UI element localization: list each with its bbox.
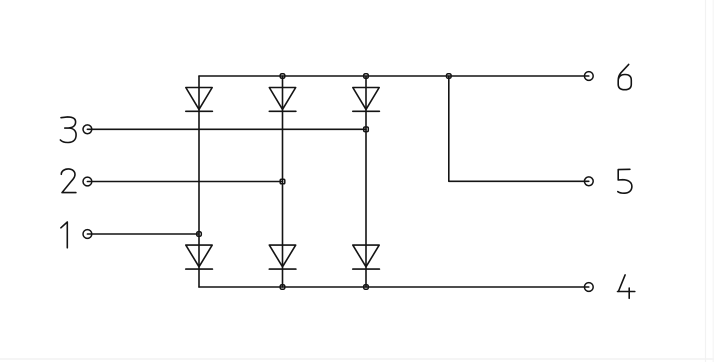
junction wire 1 / column 1 (197, 232, 202, 237)
wire column phase 2 vertical (282, 76, 284, 287)
label 3 (60, 117, 76, 143)
terminal circle 1 (83, 230, 92, 239)
label 6 (618, 64, 631, 89)
faint page corner right (712, 0, 714, 362)
diode V6 (bottom row, column 3) (353, 245, 380, 269)
terminal circle 6 (584, 72, 593, 81)
terminal circle 4 (584, 283, 593, 292)
junction top bus / column 3 (364, 74, 369, 79)
junction wire 3 / column 3 (364, 127, 369, 132)
label 5 (618, 169, 632, 193)
wire branch to terminal 5 (449, 76, 589, 181)
faint page edge bottom (0, 358, 714, 360)
junction bottom bus / column 2 (280, 285, 285, 290)
junction top bus / column 2 (280, 74, 285, 79)
terminal circle 5 (584, 177, 593, 186)
wire input 3 (87, 128, 366, 130)
wire input 1 (87, 233, 199, 235)
wire column phase 3 vertical (365, 76, 367, 287)
junction wire 2 / column 2 (280, 179, 285, 184)
junction bottom bus / column 3 (364, 285, 369, 290)
wire bottom bus (node to terminal 4) (199, 286, 589, 288)
label 4 (618, 275, 635, 298)
terminal circle 3 (83, 125, 92, 134)
diode V1 (top row, column 1) (186, 88, 213, 112)
diode V5 (bottom row, column 2) (269, 245, 296, 269)
diode V3 (top row, column 3) (353, 88, 380, 112)
wire top bus (node to terminal 6) (199, 75, 589, 77)
wire input 2 (87, 181, 282, 183)
diode V4 (bottom row, column 1) (186, 245, 213, 269)
label 1 (61, 222, 67, 248)
wire column phase 1 vertical (198, 76, 200, 287)
diode V2 (top row, column 2) (269, 88, 296, 112)
terminal circle 2 (83, 177, 92, 186)
label 2 (61, 169, 76, 193)
faint page edge right (705, 0, 707, 362)
junction top bus / branch 5 (447, 74, 452, 79)
